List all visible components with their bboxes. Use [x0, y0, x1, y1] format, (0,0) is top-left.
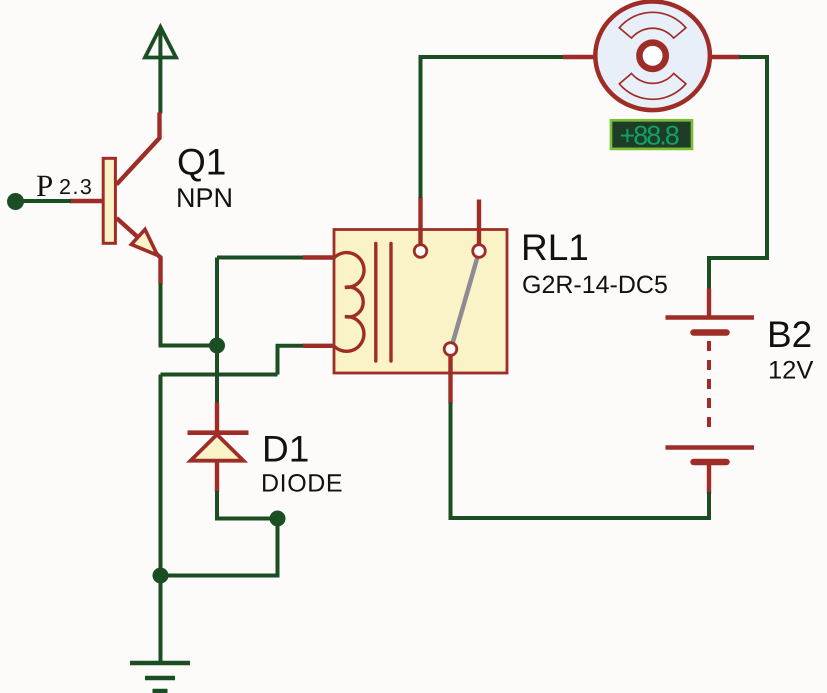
wire diode to corner: [217, 491, 278, 519]
diode D1 triangle: [191, 435, 244, 461]
junction dot B: [270, 511, 286, 527]
svg-text:G2R-14-DC5: G2R-14-DC5: [522, 271, 668, 299]
relay RL1 core: [376, 244, 391, 362]
relay pin bottom: [448, 355, 452, 403]
motor commutator top: [619, 12, 686, 38]
relay coil bottom pin: [303, 344, 336, 348]
relay pin top common: [418, 197, 422, 245]
wire junction to relay coil top: [217, 256, 304, 260]
svg-text:P: P: [36, 168, 53, 203]
motor pin left: [563, 55, 595, 59]
motor body: [595, 2, 710, 111]
relay pin top NO: [477, 200, 481, 245]
wire relay top to motor: [421, 57, 565, 198]
relay RL1 body: [334, 230, 507, 374]
svg-text:D1: D1: [262, 429, 309, 470]
relay RL1 terminal bottom: [444, 343, 457, 356]
svg-text:+88.8: +88.8: [620, 121, 679, 151]
svg-text:NPN: NPN: [176, 183, 233, 213]
svg-text:Q1: Q1: [177, 142, 226, 183]
motor commutator bottom: [619, 74, 686, 100]
wire motor to battery top: [709, 57, 767, 290]
wire input to base: [16, 199, 72, 203]
motor hub: [639, 43, 665, 69]
svg-text:DIODE: DIODE: [261, 470, 343, 498]
wire battery bottom to relay: [451, 403, 710, 519]
ground: [130, 663, 190, 691]
relay RL1 terminal common: [414, 245, 427, 258]
power symbol (VCC arrow): [145, 27, 176, 114]
junction dot A: [209, 338, 225, 354]
svg-text:B2: B2: [767, 314, 812, 355]
relay RL1 terminal NO top: [473, 245, 486, 258]
diode D1 pin bottom: [215, 462, 219, 493]
svg-text:2.3: 2.3: [59, 175, 93, 199]
transistor Q1 emitter arrow: [131, 229, 157, 255]
transistor Q1 base bar: [103, 158, 115, 243]
wire corner down-left: [159, 519, 278, 576]
battery B2 dashed link: [707, 341, 711, 436]
relay RL1 coil: [334, 253, 364, 352]
wire left rail vertical to ground: [159, 375, 163, 664]
wire collector stub: [117, 113, 160, 185]
relay coil top pin: [303, 255, 336, 259]
wire emitter down: [159, 284, 163, 346]
meter display: [611, 120, 692, 149]
wire emitter to junction: [159, 344, 218, 348]
diode D1 pin top: [215, 403, 219, 435]
wire coil-bottom riser: [278, 346, 305, 375]
battery B2 pin bottom: [707, 462, 711, 494]
wire junction vertical: [215, 258, 219, 404]
wire left rail horizontal: [161, 373, 278, 377]
svg-text:12V: 12V: [768, 357, 813, 385]
battery B2 plates: [666, 318, 755, 463]
transistor Q1 emitter line: [117, 218, 161, 285]
diode D1 cathode bar: [188, 430, 249, 435]
junction dot C: [153, 568, 169, 584]
transistor Q1 base pin: [70, 199, 102, 203]
relay RL1 switch blade: [453, 257, 478, 344]
svg-text:RL1: RL1: [521, 227, 589, 268]
motor pin right: [710, 55, 740, 59]
node P2.3 input dot: [7, 193, 24, 210]
battery B2 pin top: [707, 289, 711, 319]
